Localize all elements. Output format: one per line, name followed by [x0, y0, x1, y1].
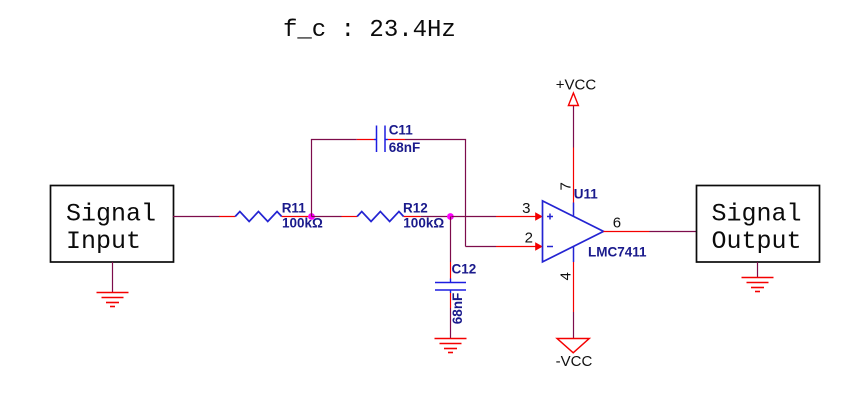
wire node A to R12: [312, 216, 342, 218]
svg-text:Signal: Signal: [66, 200, 156, 229]
wire pin 4 to -VCC: [573, 312, 575, 339]
svg-text:3: 3: [522, 200, 530, 217]
svg-text:Input: Input: [66, 227, 141, 256]
capacitor C12: [435, 262, 466, 308]
svg-text:f_c : 23.4Hz: f_c : 23.4Hz: [283, 17, 456, 44]
wire pin 4 lead: [573, 262, 575, 312]
svg-text:100kΩ: 100kΩ: [403, 216, 444, 231]
wire node A up to C11: [311, 140, 313, 217]
wire input box bottom to ground: [112, 262, 114, 293]
pin 2 arrow: [535, 242, 543, 251]
op-amp U11: [543, 201, 604, 262]
wire node B down to C12: [450, 217, 452, 263]
node B junction: [447, 213, 454, 220]
wire pin 6 output lead: [604, 231, 650, 233]
svg-text:7: 7: [557, 182, 574, 190]
svg-text:C12: C12: [452, 262, 477, 277]
ground GND1: [97, 293, 129, 307]
ground GND3 (output): [742, 278, 774, 292]
node A junction: [308, 213, 315, 220]
svg-text:U11: U11: [574, 186, 599, 201]
wire pin 7 to +VCC: [573, 106, 575, 148]
svg-text:4: 4: [557, 272, 574, 280]
svg-text:Output: Output: [712, 227, 802, 256]
wire pin 3 lead: [496, 216, 536, 218]
wire output to Signal Output box: [650, 231, 697, 233]
resistor R12: [342, 212, 421, 222]
svg-text:R12: R12: [403, 201, 428, 216]
block Signal Input: [51, 186, 174, 263]
pin 3 arrow: [535, 212, 543, 221]
svg-text:68nF: 68nF: [450, 293, 465, 325]
wire pin 7 lead: [573, 148, 575, 203]
wire C12 to ground: [450, 308, 452, 339]
resistor R11: [219, 212, 310, 222]
svg-text:+VCC: +VCC: [556, 77, 597, 94]
svg-text:-VCC: -VCC: [556, 353, 593, 370]
svg-text:6: 6: [613, 215, 621, 232]
svg-text:2: 2: [525, 230, 533, 247]
svg-text:LMC7411: LMC7411: [588, 245, 647, 260]
power +VCC: [556, 77, 597, 106]
wire output box bottom to ground: [757, 262, 759, 278]
wire node B to pin 3: [452, 216, 497, 218]
wire C11 top left: [311, 139, 357, 141]
wire input box to R11: [173, 216, 220, 218]
svg-text:68nF: 68nF: [389, 140, 421, 155]
svg-text:R11: R11: [282, 201, 307, 216]
power -VCC: [556, 339, 593, 371]
svg-text:Signal: Signal: [712, 200, 802, 229]
capacitor C11: [357, 126, 405, 153]
svg-text:100kΩ: 100kΩ: [282, 216, 323, 231]
wire R12 to node B: [421, 216, 451, 218]
wire pin 2 lead: [496, 246, 536, 248]
wire C11 right top: [405, 139, 466, 141]
ground GND2 (C12): [435, 339, 467, 353]
wire C11 right down: [465, 140, 467, 247]
block Signal Output: [697, 186, 820, 263]
svg-text:C11: C11: [389, 123, 414, 138]
wire to pin 2: [466, 246, 497, 248]
